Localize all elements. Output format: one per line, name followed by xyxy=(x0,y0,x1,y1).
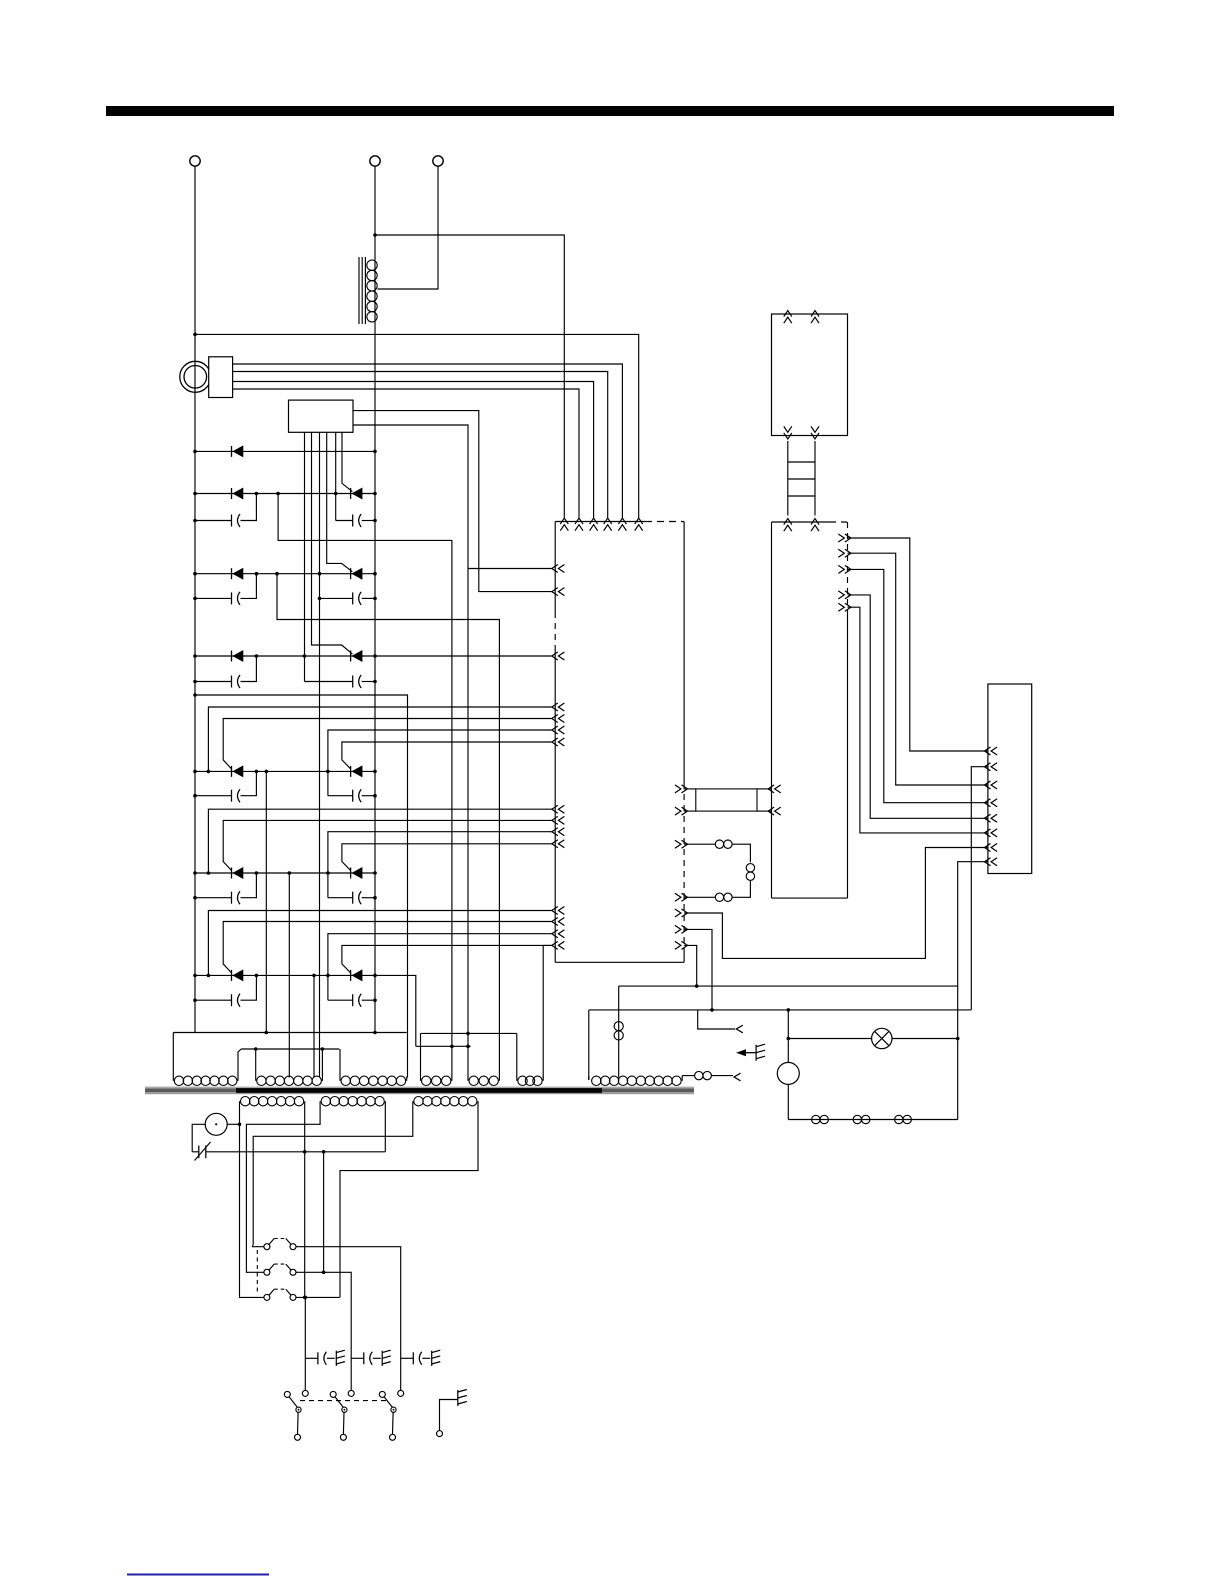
wire xyxy=(353,425,468,1078)
wire xyxy=(246,1271,264,1272)
wire xyxy=(684,810,696,812)
capacitor CF2 xyxy=(328,897,353,899)
wire xyxy=(375,975,416,1046)
terminal L1 xyxy=(190,156,200,166)
chassis ground xyxy=(432,1350,441,1366)
PC1 right connector pins xyxy=(675,785,681,793)
wire xyxy=(265,771,267,1032)
transformer T1 secondary winding 2 xyxy=(321,1097,384,1106)
SCR QF2 xyxy=(350,868,352,879)
wire xyxy=(340,1107,478,1297)
capacitor CB2 xyxy=(336,520,353,522)
gate lead wire xyxy=(327,432,353,572)
transformer T1 primary winding 1 xyxy=(174,1076,237,1085)
wire xyxy=(253,1245,264,1246)
SR1 top pins xyxy=(784,311,792,317)
capacitor C16 xyxy=(351,1357,364,1359)
transformer T2 winding xyxy=(367,260,377,322)
wire xyxy=(468,568,552,570)
capacitor CE1 xyxy=(195,795,232,797)
switch terminal xyxy=(390,1434,396,1440)
wire xyxy=(757,810,772,812)
chassis ground arrow xyxy=(736,1049,746,1056)
fan motor FM xyxy=(777,1062,799,1084)
terminal L2 xyxy=(370,156,380,166)
gate wire SCR QG1 xyxy=(223,922,552,973)
gate wire SCR QE2 xyxy=(342,742,552,769)
diode DC1 xyxy=(231,568,233,579)
wire xyxy=(233,382,594,518)
wire row E xyxy=(195,770,375,772)
wire xyxy=(288,873,290,1078)
wire xyxy=(239,1107,241,1297)
pilot lamp PL1 xyxy=(872,1028,892,1048)
wire row C xyxy=(195,573,375,575)
plug pair xyxy=(614,1022,623,1031)
wire xyxy=(233,364,623,518)
wire xyxy=(304,1297,306,1390)
wire xyxy=(195,695,408,1078)
wire xyxy=(304,1107,306,1152)
wire xyxy=(246,1107,320,1271)
switch gang linkage xyxy=(300,1400,390,1402)
wire xyxy=(253,1107,413,1245)
RC1 left pins xyxy=(985,747,991,755)
node xyxy=(193,333,197,337)
capacitor CD1 xyxy=(195,681,232,683)
transformer T1 secondary winding 1 xyxy=(241,1097,304,1106)
wire xyxy=(208,911,551,976)
gate wire SCR QE1 xyxy=(223,719,552,769)
SCR QD2 xyxy=(350,651,352,662)
PC1 top connector pins xyxy=(560,518,568,524)
wire bus B xyxy=(589,1009,972,1011)
capacitor CB1 xyxy=(195,520,232,522)
wire xyxy=(304,432,306,681)
gate wire SCR QF2 xyxy=(342,844,552,871)
contactor W contact xyxy=(264,1244,270,1250)
wire xyxy=(684,843,715,845)
wire xyxy=(335,432,337,520)
capacitor CC2 xyxy=(320,597,353,599)
wire xyxy=(732,881,750,897)
wire link3 xyxy=(421,1032,517,1034)
plug pair xyxy=(812,1115,820,1123)
PC1 left connector pins xyxy=(552,565,558,573)
wire xyxy=(227,1123,239,1125)
switch S1 xyxy=(284,1391,290,1397)
wire xyxy=(384,1107,386,1152)
switch S3 xyxy=(379,1391,385,1397)
wire xyxy=(684,945,697,986)
wire xyxy=(588,1076,590,1080)
footer rule xyxy=(127,1574,269,1576)
transformer T1 primary winding 5 xyxy=(469,1076,498,1085)
chassis ground xyxy=(336,1350,345,1366)
main board PC1 xyxy=(555,521,645,523)
plug pair xyxy=(895,1115,903,1123)
contactor linkage xyxy=(256,1250,258,1294)
plug pair xyxy=(746,864,754,872)
PC3 left pins xyxy=(768,785,774,793)
capacitor CG1 xyxy=(195,999,232,1001)
diode DA1 xyxy=(231,446,233,457)
plug pair xyxy=(715,840,723,848)
chassis ground xyxy=(756,1044,765,1061)
thermostat TP1 xyxy=(192,1151,199,1153)
SR1 bottom pins xyxy=(784,426,792,432)
wire link1 xyxy=(173,1032,406,1034)
wire xyxy=(543,945,552,1077)
SCR QB2 xyxy=(350,488,352,499)
filter board PC3 xyxy=(772,521,831,523)
wire xyxy=(233,389,579,518)
transformer T1 primary winding 2 xyxy=(257,1076,322,1085)
title bar xyxy=(106,106,1114,116)
chassis ground xyxy=(458,1390,467,1407)
SCR QG2 xyxy=(350,970,352,981)
wire xyxy=(304,1152,306,1298)
wire xyxy=(375,235,564,518)
transformer T1 primary winding 6 xyxy=(518,1076,542,1085)
wire xyxy=(971,767,988,1010)
PC3 top pins xyxy=(784,519,792,525)
wire row G xyxy=(195,974,375,976)
wire xyxy=(732,844,750,862)
transformer T1 secondary winding 3 xyxy=(414,1097,477,1106)
chassis ground xyxy=(382,1350,391,1366)
capacitor CE2 xyxy=(328,795,353,797)
wire xyxy=(208,809,551,873)
current transformer CT1 xyxy=(180,361,211,392)
interconnect cable xyxy=(787,441,789,516)
wire xyxy=(278,494,452,1078)
wire xyxy=(208,707,551,771)
wire xyxy=(192,1124,205,1152)
control board PC2 xyxy=(289,400,354,432)
node xyxy=(373,233,377,237)
wire link2 xyxy=(241,1048,339,1050)
transformer T1 primary winding 3 xyxy=(341,1076,406,1085)
plug pair xyxy=(853,1115,861,1123)
diode DD1 xyxy=(231,651,233,662)
wire xyxy=(194,166,196,1032)
wire row C tap xyxy=(277,574,499,1078)
rectifier box SR1 xyxy=(772,314,848,436)
wire xyxy=(788,1119,957,1121)
wire xyxy=(787,1010,789,1063)
transformer T1 core xyxy=(145,1087,694,1089)
wire xyxy=(848,538,988,751)
wire xyxy=(684,896,715,898)
wire xyxy=(848,595,988,818)
capacitor CD2 xyxy=(305,681,353,683)
wire xyxy=(848,607,988,833)
wire xyxy=(684,929,712,1010)
wire xyxy=(328,934,552,1001)
remote receptacle RC1 xyxy=(988,684,1032,874)
wire xyxy=(319,432,321,1077)
meter M xyxy=(205,1113,227,1135)
wire xyxy=(313,975,315,1077)
wire xyxy=(233,372,608,518)
switch terminal xyxy=(340,1434,346,1440)
wire xyxy=(848,569,988,802)
wire xyxy=(240,1296,264,1299)
wire xyxy=(328,832,552,898)
wire bus A xyxy=(619,985,958,987)
wire xyxy=(757,788,772,790)
capacitor C15 xyxy=(305,1357,318,1359)
wire xyxy=(296,1296,340,1298)
wire row F xyxy=(195,872,375,874)
transformer T2 core xyxy=(358,257,360,324)
wire xyxy=(684,788,696,790)
switch terminal xyxy=(295,1434,301,1440)
wire row D xyxy=(195,655,552,657)
interconnect plug housing xyxy=(696,789,757,811)
PC3 right pins xyxy=(838,534,844,542)
wire xyxy=(787,1084,789,1119)
wire xyxy=(848,553,988,785)
gate wire SCR QF1 xyxy=(223,820,552,870)
wire xyxy=(681,1076,683,1081)
wire xyxy=(328,730,552,796)
contactor W contact xyxy=(264,1294,270,1300)
ground terminal xyxy=(437,1431,443,1437)
wire xyxy=(618,986,620,1077)
plug pair xyxy=(695,1071,703,1079)
SCR QF1 xyxy=(231,868,233,879)
wire xyxy=(374,166,376,1032)
diode DB1 xyxy=(231,488,233,499)
wire xyxy=(378,166,439,289)
SCR QC2 xyxy=(350,568,352,579)
wire row B xyxy=(195,493,375,495)
wire link4 xyxy=(416,1045,471,1047)
terminal lead xyxy=(734,1073,741,1081)
transformer T1 primary winding 4 xyxy=(422,1076,451,1085)
capacitor CG2 xyxy=(328,999,353,1001)
wire row A xyxy=(195,450,375,452)
CT terminal block xyxy=(209,357,233,398)
SCR QE2 xyxy=(350,766,352,777)
transformer T1 primary winding 7 xyxy=(592,1076,682,1085)
wire xyxy=(788,1038,957,1040)
wire xyxy=(296,1272,351,1390)
plug pair xyxy=(715,893,723,901)
wire xyxy=(323,1152,325,1273)
terminal L3 xyxy=(433,156,443,166)
capacitor CC1 xyxy=(195,597,232,599)
SCR QG1 xyxy=(231,970,233,981)
capacitor CF1 xyxy=(195,897,232,899)
wire xyxy=(711,1075,733,1077)
node xyxy=(334,492,338,496)
gate wire SCR QG2 xyxy=(342,945,552,973)
wire xyxy=(684,848,988,959)
wire xyxy=(195,334,639,517)
wire xyxy=(440,1400,458,1431)
gate lead wire xyxy=(342,432,352,491)
wire xyxy=(588,1010,590,1080)
contactor W contact xyxy=(264,1269,270,1275)
wire xyxy=(206,1151,385,1153)
SCR QE1 xyxy=(231,766,233,777)
wire xyxy=(958,862,988,1120)
gate lead wire xyxy=(312,432,353,654)
wire xyxy=(353,411,552,592)
wire xyxy=(698,1010,735,1029)
switch S2 xyxy=(330,1391,336,1397)
terminal lead xyxy=(736,1025,743,1033)
capacitor C17 xyxy=(401,1357,414,1359)
wire xyxy=(296,1247,401,1391)
